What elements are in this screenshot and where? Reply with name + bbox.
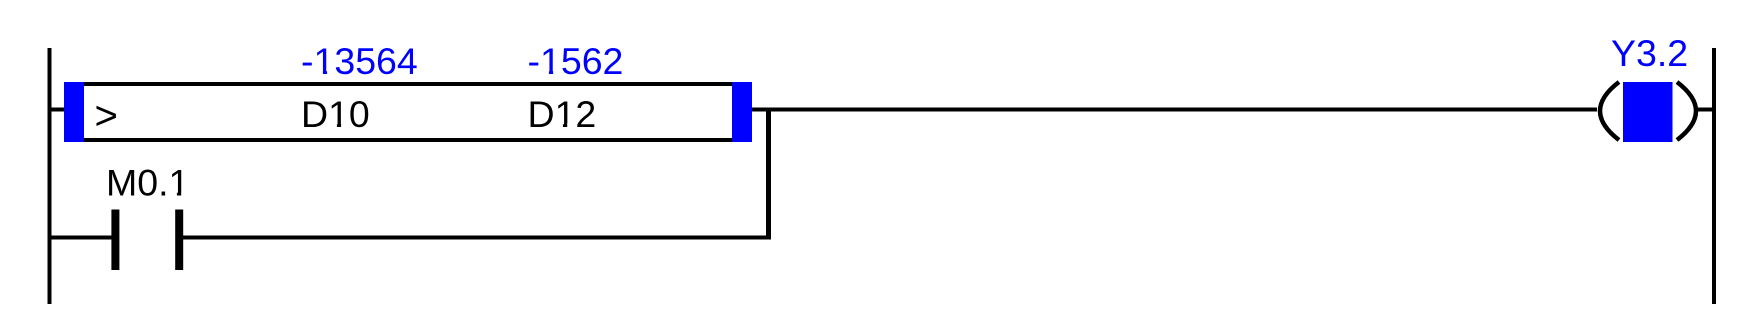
glyph tweak: remove foot serif of digit 1 in D10: [329, 123, 337, 127]
wire rung1: compare block to coil: [752, 108, 1597, 112]
wire junction vertical: branch merge: [766, 108, 771, 240]
svg-text:-1562: -1562: [528, 40, 624, 82]
glyph tweak: remove foot serif of digit 1 in D12: [556, 123, 563, 127]
svg-text:>: >: [95, 94, 118, 138]
glyph tweak: remove foot serif of digit 1 in M0.1: [170, 192, 177, 196]
left power rail: [48, 48, 52, 304]
compare block CMP box outline: [66, 84, 750, 140]
right power rail: [1712, 48, 1716, 304]
wire coil to right rail: [1698, 108, 1712, 112]
coil Y3.2 blue ON state square: [1623, 82, 1673, 142]
compare block right blue power tab: [732, 82, 752, 142]
svg-text:Y3.2: Y3.2: [1611, 32, 1688, 74]
glyph tweak: remove foot serif of digit 1 in -13564: [315, 70, 323, 74]
compare block left blue power tab: [64, 82, 84, 142]
coil Y3.2 left parenthesis: [1600, 82, 1619, 140]
contact M0.1 right bar: [175, 210, 183, 271]
svg-text:D12: D12: [528, 93, 597, 135]
svg-text:-13564: -13564: [301, 40, 418, 82]
coil Y3.2 right parenthesis: [1677, 82, 1696, 140]
svg-text:D10: D10: [301, 93, 370, 135]
wire rung2: left rail to contact M0.1: [48, 236, 112, 240]
contact M0.1 left bar: [111, 210, 119, 271]
wire rung2: contact M0.1 to junction: [183, 236, 771, 240]
svg-text:M0.1: M0.1: [106, 162, 189, 204]
wire rung1: left rail to compare block: [48, 108, 66, 112]
glyph tweak: remove foot serif of digit 1 in -1562: [542, 70, 549, 74]
